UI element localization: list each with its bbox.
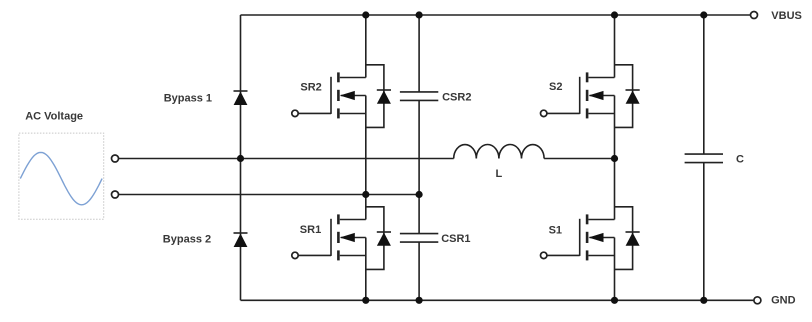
svg-text:CSR1: CSR1: [441, 233, 470, 245]
svg-text:S1: S1: [549, 225, 562, 237]
svg-text:S2: S2: [549, 81, 562, 93]
svg-text:Bypass 1: Bypass 1: [164, 92, 212, 104]
svg-text:SR2: SR2: [300, 81, 321, 93]
svg-text:VBUS: VBUS: [771, 10, 802, 22]
svg-text:SR1: SR1: [300, 224, 321, 236]
svg-text:AC Voltage: AC Voltage: [25, 110, 83, 122]
svg-text:L: L: [496, 168, 503, 180]
svg-text:Bypass 2: Bypass 2: [163, 233, 211, 245]
svg-text:CSR2: CSR2: [442, 92, 471, 104]
svg-text:GND: GND: [771, 295, 796, 307]
svg-text:C: C: [736, 154, 744, 166]
